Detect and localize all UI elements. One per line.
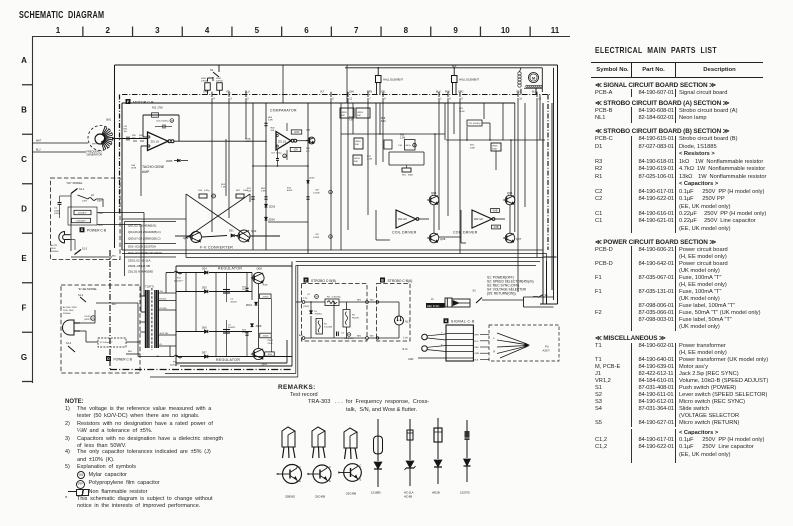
- svg-text:Q07: Q07: [516, 237, 522, 241]
- svg-text:VLT: VLT: [320, 91, 325, 94]
- svg-text:J1: J1: [431, 298, 434, 301]
- svg-text:ZD03: ZD03: [269, 206, 276, 209]
- svg-text:5.6R: 5.6R: [268, 120, 273, 122]
- svg-text:C06: C06: [198, 190, 203, 192]
- svg-text:1S2075: 1S2075: [460, 491, 470, 495]
- svg-text:0V BLK: 0V BLK: [160, 298, 167, 300]
- svg-text:-: -: [442, 351, 443, 354]
- svg-text:SIGNAL C·B: SIGNAL C·B: [451, 320, 475, 324]
- svg-text:2SC458: 2SC458: [315, 495, 326, 499]
- svg-text:C08: C08: [315, 190, 320, 192]
- svg-text:VRD3: VRD3: [357, 112, 364, 114]
- svg-text:5.8K: 5.8K: [261, 191, 266, 193]
- svg-text:R: R: [494, 351, 496, 354]
- svg-text:C2-G1: C2-G1: [84, 316, 91, 318]
- svg-text:8: 8: [449, 98, 451, 101]
- svg-text:BLK: BLK: [128, 351, 133, 353]
- svg-text:F1 100mA"T": F1 100mA"T": [100, 341, 113, 344]
- svg-text:BLU: BLU: [36, 150, 41, 152]
- svg-text:470Ω: 470Ω: [268, 343, 273, 345]
- svg-text:G.033K: G.033K: [313, 237, 320, 239]
- svg-text:11: 11: [551, 26, 560, 35]
- svg-text:S1-2: S1-2: [82, 248, 88, 251]
- svg-text:R2: R2: [352, 315, 356, 317]
- svg-text:BLU: BLU: [532, 92, 537, 94]
- svg-text:AMP: AMP: [142, 170, 150, 174]
- svg-text:WHT: WHT: [92, 144, 97, 146]
- svg-text:NE1: NE1: [370, 335, 374, 337]
- svg-text:0V: 0V: [160, 344, 163, 346]
- svg-text:SM1: SM1: [106, 119, 112, 122]
- svg-text:5: 5: [332, 98, 334, 101]
- svg-text:10: 10: [501, 26, 510, 35]
- svg-text:REGULATOR: REGULATOR: [216, 358, 240, 362]
- svg-text:1: 1: [56, 26, 61, 35]
- svg-text:WHT: WHT: [99, 213, 105, 215]
- svg-text:15V: 15V: [160, 291, 164, 293]
- svg-text:C: C: [299, 465, 301, 469]
- svg-text:3.8B: 3.8B: [494, 227, 499, 229]
- svg-text:0V RED: 0V RED: [160, 308, 168, 310]
- svg-text:2SB562: 2SB562: [285, 495, 295, 499]
- svg-text:50/60Hz: 50/60Hz: [51, 251, 58, 253]
- svg-text:50K: 50K: [341, 115, 345, 117]
- svg-text:R18: R18: [381, 118, 386, 120]
- svg-text:RED: RED: [517, 92, 522, 94]
- svg-text:1: 1: [440, 98, 442, 101]
- svg-text:9: 9: [461, 98, 463, 101]
- svg-text:WHT: WHT: [36, 141, 42, 143]
- svg-text:D04~07 W02B OR W02G: D04~07 W02B OR W02G: [128, 251, 163, 255]
- svg-text:HZ-9B: HZ-9B: [404, 495, 412, 499]
- svg-text:E: E: [360, 478, 362, 482]
- svg-text:D05: D05: [202, 287, 207, 290]
- svg-text:ZD05: ZD05: [166, 159, 173, 163]
- svg-text:GRN: GRN: [474, 353, 479, 355]
- svg-text:C: C: [329, 465, 331, 469]
- svg-text:ZD01,02 HZ-11A: ZD01,02 HZ-11A: [128, 259, 150, 263]
- svg-text:NL1: NL1: [405, 319, 410, 323]
- svg-text:500K: 500K: [492, 148, 498, 150]
- svg-text:BLK: BLK: [474, 360, 479, 362]
- svg-text:Q02: Q02: [251, 229, 257, 233]
- svg-text:ZD03: ZD03: [309, 177, 315, 179]
- svg-text:(OR-B): (OR-B): [201, 81, 208, 83]
- svg-text:G07B: G07B: [131, 168, 137, 170]
- svg-text:S5: S5: [545, 294, 549, 297]
- svg-text:(OR-B): (OR-B): [216, 81, 223, 83]
- svg-text:BLK: BLK: [112, 256, 117, 258]
- svg-text:9K(1W): 9K(1W): [352, 317, 359, 319]
- svg-text:D04: D04: [202, 268, 207, 271]
- svg-text:VR04: VR04: [355, 141, 361, 143]
- svg-text:Z02 1/2: Z02 1/2: [474, 217, 483, 221]
- svg-text:M: M: [414, 145, 416, 147]
- svg-text:LBH: LBH: [349, 91, 354, 94]
- svg-text:0.01μ: 0.01μ: [204, 190, 210, 192]
- svg-text:C3: C3: [341, 333, 345, 335]
- svg-text:E: E: [299, 479, 301, 483]
- svg-text:F: F: [22, 304, 27, 313]
- svg-text:1.5k(1W): 1.5k(1W): [324, 326, 332, 328]
- svg-text:C11 0.0047μ: C11 0.0047μ: [469, 123, 482, 125]
- svg-text:R01: R01: [459, 108, 464, 110]
- svg-text:2.2M: 2.2M: [400, 137, 405, 139]
- svg-text:-31B: -31B: [267, 354, 272, 356]
- svg-text:2SC458: 2SC458: [346, 492, 357, 496]
- svg-text:W02B: W02B: [432, 491, 440, 495]
- svg-text:F01: F01: [177, 278, 182, 280]
- svg-text:VRD2: VRD2: [341, 112, 348, 114]
- svg-text:C: C: [360, 464, 362, 468]
- svg-text:R07: R07: [236, 190, 241, 192]
- svg-text:A10P: A10P: [287, 189, 293, 192]
- svg-text:п 600mA”T”: п 600mA”T”: [76, 220, 87, 223]
- svg-text:6: 6: [304, 26, 309, 35]
- svg-text:BLU: BLU: [474, 341, 479, 343]
- svg-text:COMPARATOR: COMPARATOR: [270, 109, 297, 113]
- svg-text:50K: 50K: [354, 161, 358, 163]
- svg-text:300mA”T”: 300mA”T”: [78, 212, 87, 215]
- svg-text:D1: D1: [315, 311, 319, 313]
- svg-text:A: A: [21, 56, 27, 65]
- svg-text:0.15μ: 0.15μ: [276, 153, 282, 155]
- svg-text:L: L: [494, 337, 496, 340]
- svg-text:2000/25: 2000/25: [228, 327, 236, 329]
- svg-text:POWER C·B: POWER C·B: [87, 229, 107, 233]
- svg-text:(250V): (250V): [303, 306, 310, 308]
- svg-text:GENERATOR: GENERATOR: [87, 154, 103, 157]
- svg-text:POWER: POWER: [114, 357, 127, 361]
- svg-text:4.7k(1W): 4.7k(1W): [332, 296, 341, 298]
- svg-text:Z01 1/2: Z01 1/2: [278, 140, 287, 143]
- svg-text:C1: C1: [54, 208, 58, 210]
- svg-text:BLU: BLU: [99, 225, 104, 227]
- svg-text:-15V: -15V: [293, 149, 298, 152]
- svg-text:(S5: RETURN(ON)): (S5: RETURN(ON)): [487, 291, 516, 295]
- svg-text:R21: R21: [402, 175, 407, 177]
- svg-text:COIL DRIVER: COIL DRIVER: [392, 231, 417, 235]
- svg-text:50/60Hz: 50/60Hz: [63, 313, 70, 315]
- svg-text:G: G: [21, 353, 27, 362]
- svg-text:S1-2: S1-2: [66, 342, 72, 345]
- svg-text:7.5K: 7.5K: [221, 187, 226, 189]
- svg-text:S2: S2: [210, 68, 214, 72]
- svg-text:5: 5: [255, 26, 260, 35]
- svg-text:Q01,02 2SC458(B,E): Q01,02 2SC458(B,E): [128, 224, 156, 228]
- svg-text:C3: C3: [228, 325, 232, 327]
- svg-text:COIL DRIVER: COIL DRIVER: [453, 231, 478, 235]
- svg-text:L-ch: L-ch: [403, 336, 408, 339]
- svg-text:220V~240V: 220V~240V: [63, 310, 74, 312]
- svg-text:50K: 50K: [355, 144, 359, 146]
- svg-text:HALL ELEMENT: HALL ELEMENT: [459, 78, 479, 82]
- svg-text:C·B: C·B: [127, 357, 133, 361]
- svg-text:300K: 300K: [408, 175, 414, 177]
- svg-text:+15V: +15V: [294, 131, 300, 134]
- svg-text:R10: R10: [152, 107, 157, 109]
- svg-text:2: 2: [247, 98, 249, 101]
- svg-text:50K: 50K: [357, 115, 361, 117]
- svg-text:ORG: ORG: [458, 91, 464, 94]
- svg-text:Z01 1/2: Z01 1/2: [151, 141, 160, 144]
- svg-text:S3: S3: [473, 290, 477, 293]
- svg-text:R22: R22: [470, 145, 475, 147]
- svg-text:D07: D07: [202, 352, 207, 355]
- svg-text:240V: 240V: [51, 248, 56, 250]
- svg-text:5.6K: 5.6K: [381, 121, 386, 123]
- svg-text:R3: R3: [327, 296, 331, 298]
- svg-text:YEL: YEL: [381, 91, 386, 94]
- svg-text:240V: 240V: [97, 201, 103, 203]
- svg-text:C10: C10: [398, 145, 403, 147]
- svg-text:Q08: Q08: [257, 267, 263, 271]
- svg-text:BLK: BLK: [112, 304, 117, 306]
- svg-text:600/25: 600/25: [231, 301, 238, 303]
- svg-text:-30/2D: -30/2D: [262, 336, 269, 338]
- svg-text:"E" EE MODEL: "E" EE MODEL: [78, 287, 98, 291]
- svg-text:S1-1: S1-1: [79, 188, 85, 191]
- svg-text:0.1μ: 0.1μ: [303, 298, 308, 300]
- svg-text:2: 2: [105, 26, 110, 35]
- svg-text:1S1885: 1S1885: [371, 491, 381, 495]
- svg-text:G.022M: G.022M: [313, 192, 320, 194]
- svg-text:120V: 120V: [82, 201, 88, 203]
- svg-text:AC110V~125V/: AC110V~125V/: [63, 306, 77, 309]
- svg-text:M: M: [532, 76, 535, 80]
- svg-text:7: 7: [369, 98, 371, 101]
- svg-text:2A: 2A: [91, 194, 94, 197]
- svg-text:ЗОЖЖЦ: ЗОЖЖЦ: [315, 314, 323, 316]
- svg-text:9.8B: 9.8B: [493, 211, 498, 213]
- svg-text:12: 12: [349, 98, 352, 101]
- svg-text:PU: PU: [545, 345, 549, 349]
- svg-text:T1(P.T): T1(P.T): [145, 285, 154, 289]
- svg-text:ZD01: ZD01: [246, 304, 253, 307]
- svg-text:R-ch: R-ch: [403, 348, 409, 351]
- svg-text:50K: 50K: [271, 130, 275, 132]
- svg-text:10μ: 10μ: [124, 131, 127, 133]
- svg-text:M: M: [284, 156, 286, 158]
- svg-text:B: B: [21, 106, 27, 115]
- svg-text:100K: 100K: [243, 190, 249, 192]
- svg-text:4: 4: [213, 98, 215, 101]
- svg-text:9: 9: [453, 26, 458, 35]
- svg-text:3UN0: 3UN0: [263, 285, 269, 287]
- svg-text:D: D: [21, 205, 27, 214]
- svg-text:NE1: NE1: [357, 336, 362, 338]
- svg-text:Q06: Q06: [507, 191, 513, 195]
- svg-text:REGULATOR: REGULATOR: [218, 267, 242, 271]
- svg-text:NE2: NE2: [357, 300, 362, 302]
- svg-text:C2: C2: [231, 299, 235, 301]
- svg-text:VRC0: VRC0: [354, 158, 361, 160]
- svg-text:ASS'Y: ASS'Y: [543, 348, 551, 352]
- svg-text:10: 10: [519, 98, 522, 101]
- svg-text:GND: GND: [408, 358, 414, 361]
- svg-text:74.9K: 74.9K: [245, 141, 251, 143]
- svg-text:3: 3: [155, 26, 160, 35]
- svg-text:7: 7: [354, 26, 359, 35]
- svg-text:"UK" MODEL: "UK" MODEL: [66, 181, 83, 185]
- svg-text:(250V): (250V): [84, 319, 91, 321]
- svg-text:400mA"T": 400mA"T": [170, 363, 180, 366]
- svg-text:0.047μ: 0.047μ: [404, 145, 411, 147]
- svg-text:0.0047μ: 0.0047μ: [161, 120, 170, 122]
- svg-text:AC125: AC125: [51, 244, 58, 247]
- svg-text:+30/2D: +30/2D: [262, 296, 269, 298]
- svg-text:R25-2: R25-2: [268, 340, 274, 342]
- svg-text:8: 8: [404, 26, 409, 35]
- svg-text:C09: C09: [315, 234, 320, 236]
- svg-text:Q08: Q08: [440, 237, 446, 241]
- svg-text:C: C: [21, 155, 27, 164]
- svg-text:MOTOR C·B: MOTOR C·B: [133, 100, 154, 104]
- svg-text:D01: D01: [229, 230, 234, 233]
- svg-text:C2: C2: [307, 294, 311, 296]
- svg-text:STROBO C·B(B): STROBO C·B(B): [311, 279, 336, 283]
- svg-text:M: M: [171, 121, 173, 123]
- svg-text:6: 6: [384, 98, 386, 101]
- svg-text:HALL ELEMENT: HALL ELEMENT: [383, 78, 403, 82]
- svg-text:D06: D06: [202, 327, 207, 330]
- svg-text:400mA"T": 400mA"T": [174, 279, 184, 282]
- svg-text:G1(B): G1(B): [54, 210, 60, 212]
- svg-text:C0A: C0A: [131, 164, 136, 167]
- svg-text:NE2: NE2: [370, 299, 374, 301]
- svg-text:S1-1: S1-1: [78, 294, 84, 297]
- svg-text:4: 4: [205, 26, 210, 35]
- svg-text:Q01: Q01: [183, 236, 189, 240]
- svg-text:3: 3: [230, 98, 232, 101]
- svg-text:E: E: [21, 254, 27, 263]
- svg-text:2.2M: 2.2M: [367, 159, 372, 161]
- svg-text:Z02 2/2: Z02 2/2: [398, 217, 407, 221]
- svg-text:R1: R1: [324, 324, 328, 326]
- svg-text:ZD03~05 HZ-6B: ZD03~05 HZ-6B: [128, 264, 150, 268]
- svg-text:25.9K: 25.9K: [459, 111, 465, 113]
- svg-text:WHT: WHT: [474, 335, 479, 337]
- svg-text:TACHO GENE: TACHO GENE: [142, 165, 165, 169]
- svg-text:100V YEL: 100V YEL: [160, 333, 170, 335]
- svg-text:Q04: Q04: [431, 191, 437, 195]
- svg-text:D01~03,08 1S2075A: D01~03,08 1S2075A: [128, 245, 156, 249]
- svg-text:M: M: [213, 196, 215, 198]
- svg-text:STROBO C·B(A): STROBO C·B(A): [388, 279, 413, 283]
- svg-text:BLU: BLU: [436, 91, 441, 94]
- svg-text:ZD04: ZD04: [269, 219, 276, 222]
- svg-text:270K: 270K: [158, 107, 164, 109]
- svg-text:F: F: [127, 100, 129, 104]
- svg-text:100K: 100K: [470, 147, 476, 149]
- svg-text:0.1μ(250V): 0.1μ(250V): [344, 338, 354, 340]
- svg-text:RED: RED: [474, 347, 479, 349]
- svg-text:-: -: [442, 339, 443, 342]
- svg-text:F-V CONVERTER: F-V CONVERTER: [200, 246, 233, 250]
- svg-text:VR05: VR05: [492, 146, 498, 148]
- svg-text:R20: R20: [400, 135, 405, 137]
- svg-text:E: E: [329, 479, 331, 483]
- svg-text:REC SYNC: REC SYNC: [427, 305, 440, 308]
